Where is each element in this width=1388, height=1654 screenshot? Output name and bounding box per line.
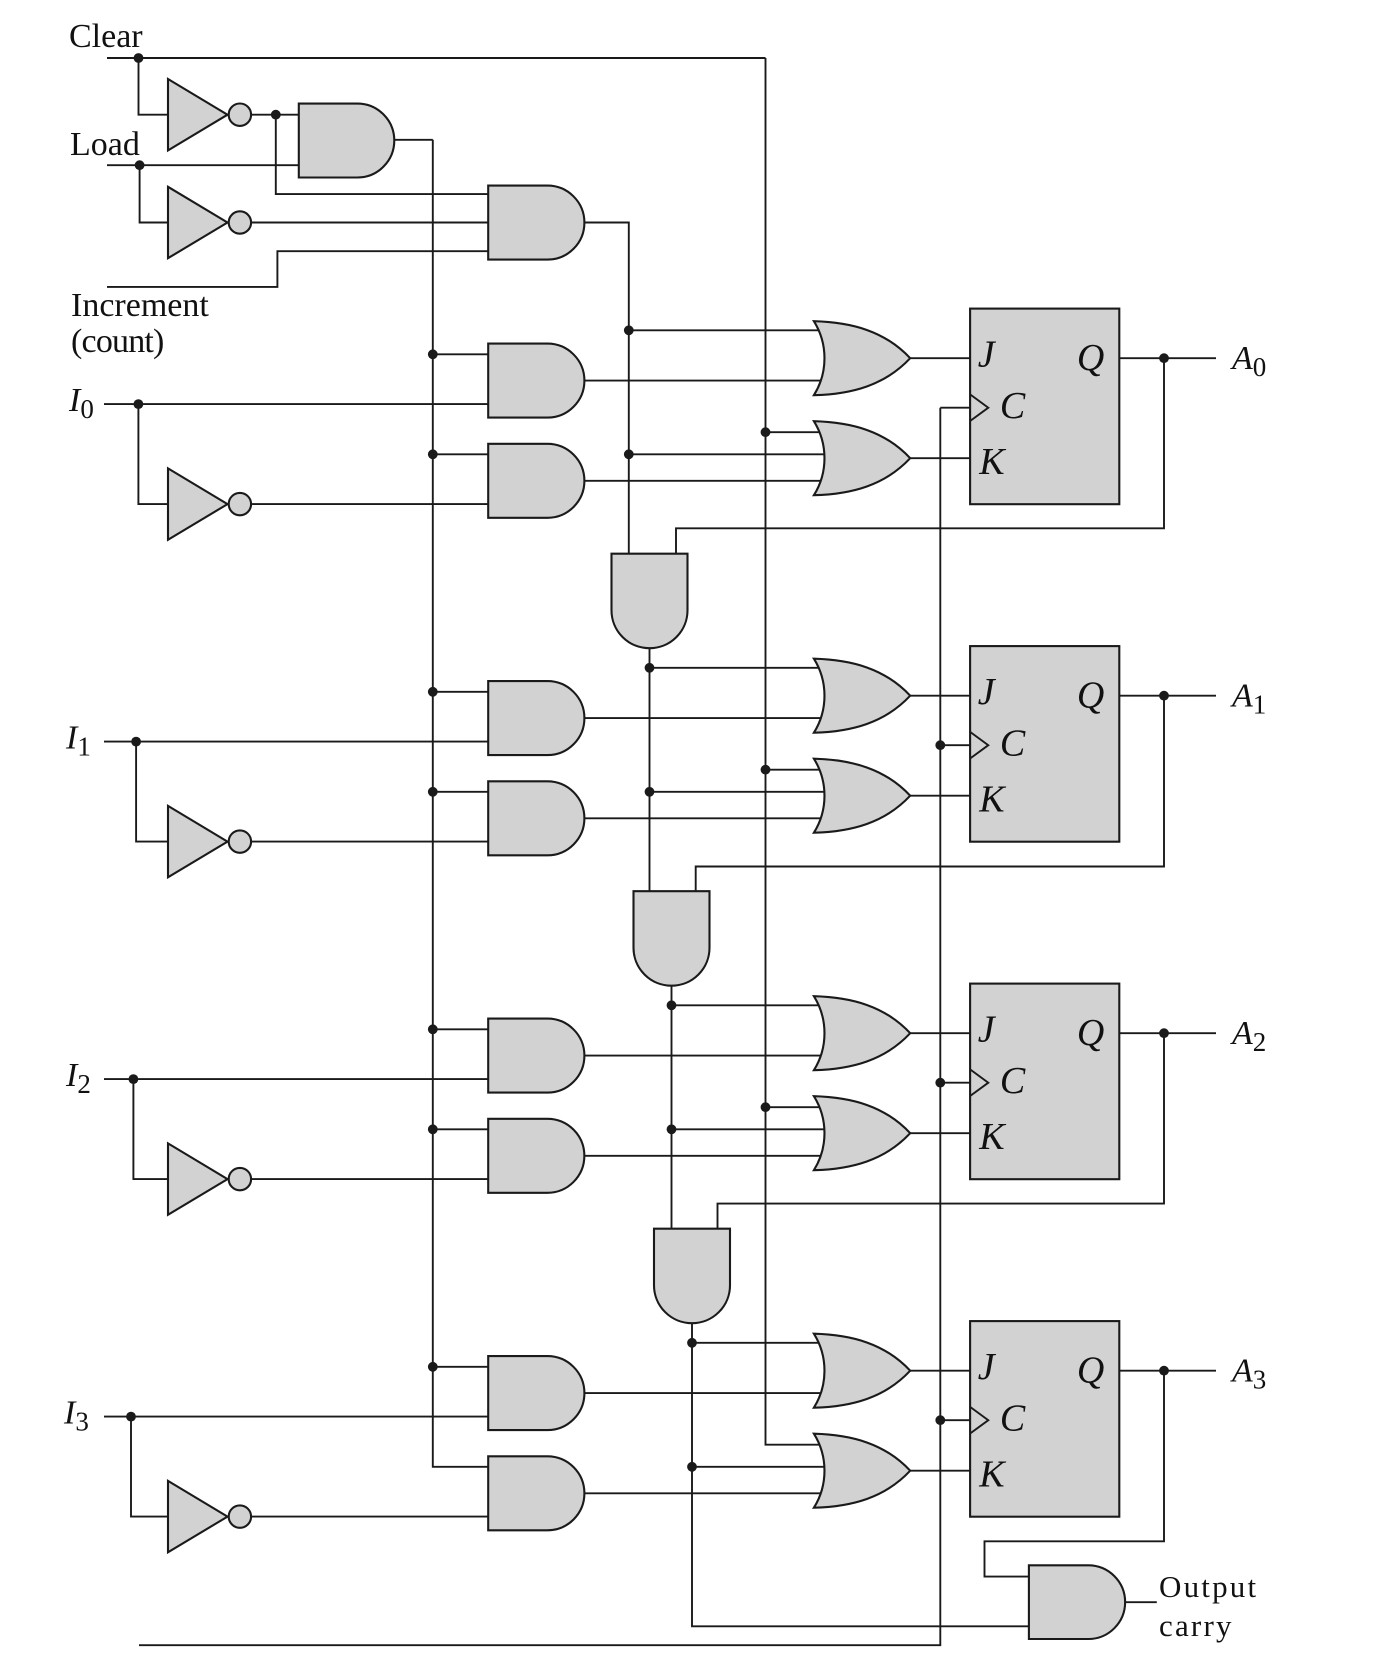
wire I0 input	[104, 403, 488, 405]
wire I3 to inverter	[131, 1417, 168, 1517]
or-gate K2	[814, 1096, 910, 1170]
and-gate carry2 (count·A1)	[634, 891, 710, 986]
wire count to OR-J3	[692, 1342, 825, 1344]
and-gate K2 (Load·I2')	[488, 1119, 584, 1193]
svg-text:Q: Q	[1077, 337, 1104, 379]
junction I2 branch	[129, 1074, 139, 1084]
or-gate K0	[814, 421, 910, 495]
svg-text:J: J	[978, 1009, 997, 1051]
wire load rail to K-AND0	[433, 453, 488, 455]
flip-flop U2 clock wedge	[970, 1069, 988, 1096]
flip-flop U0 clock wedge	[970, 394, 988, 421]
wire count rail stage 1	[649, 648, 651, 891]
or-gate K3	[814, 1434, 910, 1508]
svg-text:C: C	[1000, 385, 1026, 427]
svg-text:K: K	[978, 1116, 1006, 1158]
svg-text:(count): (count)	[71, 323, 164, 360]
flip-flop U3 clock wedge	[970, 1407, 988, 1434]
wire load rail to K-AND1	[433, 791, 488, 793]
inverter I3 bubble	[229, 1505, 251, 1527]
and-gate count-enable (Clear'·Load'·Increment)	[488, 186, 584, 260]
wire OR-J3 to J pin	[910, 1370, 970, 1372]
junction clock tap C2	[935, 1078, 945, 1088]
wire count to OR-K0	[629, 453, 825, 455]
inverter Clear bubble	[229, 104, 251, 126]
inverter I2 triangle	[168, 1143, 228, 1214]
or-gate J3	[814, 1334, 910, 1408]
wire Load input	[107, 164, 299, 166]
junction clock tap C3	[935, 1415, 945, 1425]
svg-text:C: C	[1000, 1060, 1026, 1102]
wire J-AND2 output	[584, 1055, 825, 1057]
wire OR-K0 to K pin	[910, 457, 970, 459]
and-gate carry1 (count·A0)	[612, 554, 688, 649]
wire count to OR-J1	[650, 667, 826, 669]
wire OR-K2 to K pin	[910, 1132, 970, 1134]
wire J-AND0 output	[584, 380, 825, 382]
wire clear to OR-K0	[766, 431, 826, 433]
wire J-AND1 output	[584, 717, 825, 719]
wire clock rail	[139, 408, 940, 1646]
svg-text:I2: I2	[65, 1057, 91, 1099]
svg-text:Increment: Increment	[71, 287, 209, 324]
wire A3 to carry AND	[985, 1371, 1165, 1577]
svg-text:Q: Q	[1077, 675, 1104, 717]
junction load rail tap J1	[428, 687, 438, 697]
wire count to OR-J0	[629, 329, 825, 331]
and-gate J3 (Load·I3)	[488, 1356, 584, 1430]
junction count tap K3	[687, 1462, 697, 1472]
and-gate K0 (Load·I0')	[488, 444, 584, 518]
inverter Clear triangle	[168, 79, 228, 150]
wire I1 to inverter	[136, 742, 168, 842]
inverter I1 bubble	[229, 830, 251, 852]
junction clock tap C1	[935, 740, 945, 750]
wire clock to C pin 2	[940, 1082, 970, 1084]
wire count to OR-K1	[650, 791, 826, 793]
svg-text:K: K	[978, 779, 1006, 821]
wire count to OR-J2	[672, 1004, 826, 1006]
wire K-AND0 output	[584, 480, 825, 482]
wire Clear' down to count AND	[276, 115, 488, 194]
wire clear to OR-K1	[766, 769, 826, 771]
wire load rail to J-AND3	[433, 1366, 488, 1368]
inverter I0 bubble	[229, 493, 251, 515]
svg-text:K: K	[978, 441, 1006, 483]
wire count to OR-K2	[672, 1128, 826, 1130]
wire K-AND1 output	[584, 817, 825, 819]
junction load rail tap K1	[428, 787, 438, 797]
flip-flop U3 (JK)	[970, 1321, 1119, 1517]
and-gate K3 (Load·I3')	[488, 1456, 584, 1530]
wire OR-J2 to J pin	[910, 1032, 970, 1034]
svg-text:Q: Q	[1077, 1350, 1104, 1392]
svg-text:J: J	[978, 671, 997, 713]
or-gate K1	[814, 759, 910, 833]
svg-text:C: C	[1000, 723, 1026, 765]
and-gate carry3 (count·A2)	[654, 1229, 730, 1324]
wire OR-K1 to K pin	[910, 795, 970, 797]
junction count tap J0	[624, 325, 634, 335]
wire clear rail vertical	[766, 58, 826, 1445]
inverter I1 triangle	[168, 806, 228, 877]
wire output carry	[1125, 1601, 1157, 1603]
svg-text:A1: A1	[1230, 677, 1266, 719]
wire I2' to K-AND	[251, 1178, 488, 1180]
wire clock to C pin 0	[940, 407, 970, 409]
flip-flop U2 (JK)	[970, 984, 1119, 1180]
inverter Load bubble	[229, 211, 251, 233]
wire A1 feedback	[696, 696, 1164, 892]
junction load rail tap K0	[428, 449, 438, 459]
svg-text:I0: I0	[68, 382, 94, 424]
wire Clear input	[107, 57, 766, 59]
svg-text:A3: A3	[1230, 1352, 1266, 1394]
or-gate J1	[814, 659, 910, 733]
inverter I3 triangle	[168, 1481, 228, 1552]
wire Clear to inverter	[139, 58, 169, 115]
wire clear to OR-K2	[766, 1106, 826, 1108]
junction I1 branch	[131, 737, 141, 747]
junction I0 branch	[134, 399, 144, 409]
and-gate J1 (Load·I1)	[488, 681, 584, 755]
junction load rail tap J0	[428, 349, 438, 359]
wire I2 to inverter	[133, 1079, 168, 1179]
svg-text:carry: carry	[1159, 1608, 1234, 1643]
junction count tap J2	[667, 1000, 677, 1010]
wire Q1 output	[1119, 695, 1216, 697]
junction count tap K2	[667, 1124, 677, 1134]
wire Q3 output	[1119, 1370, 1216, 1372]
wire K-AND2 output	[584, 1155, 825, 1157]
junction count tap K0	[624, 449, 634, 459]
wire Increment input	[107, 251, 488, 287]
junction load rail tap K2	[428, 1124, 438, 1134]
wire Clear' to AND gates	[251, 114, 299, 116]
wire OR-K3 to K pin	[910, 1470, 970, 1472]
flip-flop U1 (JK)	[970, 646, 1119, 842]
junction count tap K1	[645, 787, 655, 797]
svg-text:I1: I1	[65, 720, 91, 762]
wire A0 feedback	[676, 358, 1164, 554]
wire load rail to J-AND2	[433, 1028, 488, 1030]
svg-text:Load: Load	[70, 126, 140, 163]
junction clear tap K2	[761, 1102, 771, 1112]
wire I3' to K-AND	[251, 1516, 488, 1518]
inverter I2 bubble	[229, 1168, 251, 1190]
svg-text:C: C	[1000, 1398, 1026, 1440]
svg-text:A0: A0	[1230, 340, 1266, 382]
and-gate J0 (Load·I0)	[488, 344, 584, 418]
wire K-AND3 output	[584, 1492, 825, 1494]
wire I0' to K-AND	[251, 503, 488, 505]
svg-text:Q: Q	[1077, 1012, 1104, 1054]
junction load rail tap J3	[428, 1362, 438, 1372]
or-gate J0	[814, 321, 910, 395]
svg-text:Output: Output	[1159, 1569, 1258, 1604]
wire load rail to J-AND1	[433, 691, 488, 693]
wire Q0 output	[1119, 357, 1216, 359]
svg-text:Clear: Clear	[69, 18, 143, 55]
wire Load to inverter	[140, 165, 168, 222]
or-gate J2	[814, 996, 910, 1070]
junction count tap J1	[645, 663, 655, 673]
wire J-AND3 output	[584, 1392, 825, 1394]
junction clear tap K0	[761, 427, 771, 437]
wire count rail stage 2	[671, 986, 673, 1229]
wire count-enable to rail	[584, 223, 628, 554]
wire OR-J0 to J pin	[910, 357, 970, 359]
wire count rail stage 3	[692, 1323, 1029, 1626]
svg-text:J: J	[978, 1346, 997, 1388]
svg-text:K: K	[978, 1454, 1006, 1496]
and-gate output carry	[1029, 1565, 1125, 1639]
junction A0	[1159, 353, 1169, 363]
svg-text:A2: A2	[1230, 1015, 1266, 1057]
wire I3 input	[104, 1416, 488, 1418]
wire I1' to K-AND	[251, 841, 488, 843]
wire I1 input	[104, 741, 488, 743]
junction Load branch	[135, 160, 145, 170]
wire OR-J1 to J pin	[910, 695, 970, 697]
junction count tap J3	[687, 1338, 697, 1348]
and-gate K1 (Load·I1')	[488, 781, 584, 855]
junction A2	[1159, 1028, 1169, 1038]
junction Clear branch	[134, 53, 144, 63]
inverter I0 triangle	[168, 468, 228, 539]
junction load rail tap J2	[428, 1024, 438, 1034]
junction clear tap K1	[761, 765, 771, 775]
wire A2 feedback	[718, 1033, 1165, 1229]
wire load rail to J-AND0	[433, 353, 488, 355]
wire Load' to count AND	[251, 222, 488, 224]
wire load rail to K-AND2	[433, 1128, 488, 1130]
and-gate J2 (Load·I2)	[488, 1019, 584, 1093]
junction A3	[1159, 1366, 1169, 1376]
wire clock to C pin 1	[940, 744, 970, 746]
wire I0 to inverter	[138, 404, 168, 504]
wire clock to C pin 3	[940, 1419, 970, 1421]
junction I3 branch	[126, 1412, 136, 1422]
wire I2 input	[104, 1078, 488, 1080]
inverter Load triangle	[168, 187, 228, 258]
junction A1	[1159, 691, 1169, 701]
and-gate load-enable (Clear'·Load)	[299, 104, 394, 178]
flip-flop U0 (JK)	[970, 309, 1119, 505]
wire Q2 output	[1119, 1032, 1216, 1034]
wire count to OR-K3	[692, 1466, 825, 1468]
wire load-enable rail vertical	[433, 140, 488, 1467]
flip-flop U1 clock wedge	[970, 732, 988, 759]
junction Clear' branch	[271, 110, 281, 120]
svg-text:I3: I3	[63, 1395, 89, 1437]
wire load-enable to rail	[394, 139, 433, 141]
svg-text:J: J	[978, 334, 997, 376]
